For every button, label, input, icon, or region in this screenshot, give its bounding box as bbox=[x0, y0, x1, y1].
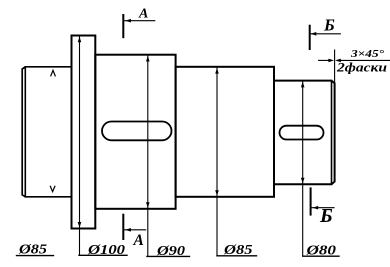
svg-text:А: А bbox=[133, 232, 144, 249]
svg-text:Ø85: Ø85 bbox=[18, 243, 47, 258]
keyway slot in S5 bbox=[280, 126, 324, 140]
arrowhead Ø100 bottom bbox=[78, 222, 82, 228]
section marker A bottom: bar bbox=[122, 215, 124, 239]
svg-text:А: А bbox=[138, 7, 148, 22]
arrowhead Ø90 bottom bbox=[146, 202, 150, 208]
section marker B top: bar bbox=[309, 26, 311, 49]
arrowhead Ø85 S4 bottom bbox=[215, 190, 219, 196]
svg-text:Ø80: Ø80 bbox=[305, 244, 336, 259]
section marker B top: arrow line bbox=[311, 33, 341, 35]
svg-text:Ø90: Ø90 bbox=[156, 244, 185, 259]
chamfer dim shelf line bbox=[339, 59, 390, 61]
dimension line Ø90 bbox=[147, 56, 149, 257]
section marker B bottom: arrow line bbox=[312, 207, 334, 209]
svg-text:Ø85: Ø85 bbox=[223, 243, 253, 258]
chamfer dim extension line bbox=[334, 50, 336, 83]
arrowhead marker A top bbox=[125, 19, 131, 23]
svg-text:Ø100: Ø100 bbox=[87, 243, 125, 258]
label underline Ø90 bbox=[147, 255, 190, 257]
arrowhead Ø80 bottom bbox=[301, 178, 305, 184]
shaft section S4 Ø85 bbox=[176, 67, 274, 197]
svg-text:3×45°: 3×45° bbox=[350, 49, 385, 60]
svg-text:Б: Б bbox=[323, 16, 335, 35]
keyway slot in S3 bbox=[102, 122, 172, 141]
chamfer line S5 bbox=[331, 81, 333, 185]
svg-text:Б: Б bbox=[319, 205, 333, 227]
arrowhead Ø85 S4 top bbox=[215, 68, 219, 74]
chamfer dim left line bbox=[319, 59, 330, 61]
arrowhead Ø100 top bbox=[78, 37, 82, 43]
shaft section S5 Ø80 right, with end chamfer bbox=[274, 81, 335, 185]
dimension line Ø100 bbox=[79, 37, 81, 256]
arrowhead Ø80 top bbox=[301, 82, 305, 88]
arrowhead marker B bottom bbox=[313, 206, 319, 210]
label underline Ø85 right bbox=[217, 255, 257, 257]
label underline Ø85 left bbox=[17, 255, 54, 257]
section marker B bottom: bar bbox=[310, 188, 312, 214]
dimension line Ø80 bbox=[302, 82, 304, 257]
arrowhead chamfer dim right-pointing bbox=[328, 59, 334, 63]
svg-text:2фаски: 2фаски bbox=[336, 60, 387, 75]
label underline Ø80 bbox=[303, 255, 339, 257]
dimension line Ø85 S4 bbox=[216, 68, 218, 256]
section marker A bottom: arrow line bbox=[124, 229, 145, 231]
arrowhead marker A bottom bbox=[125, 228, 131, 232]
arrowhead marker B top bbox=[311, 32, 317, 36]
section marker A top: bar bbox=[122, 15, 124, 37]
arrowhead Ø90 top bbox=[146, 56, 150, 62]
shaft section S1 Ø85 left, with end chamfer bbox=[22, 67, 71, 197]
section marker A top: arrow line bbox=[124, 20, 154, 22]
dimension arrows Ø85 S1 (open arrowheads) bbox=[51, 70, 55, 75]
arrowhead chamfer dim left-pointing bbox=[335, 59, 341, 63]
shaft section S3 Ø90 bbox=[95, 55, 175, 209]
label underline Ø100 bbox=[79, 254, 127, 256]
shaft section S2 Ø100 collar bbox=[72, 36, 96, 229]
chamfer line S1 bbox=[24, 67, 26, 197]
